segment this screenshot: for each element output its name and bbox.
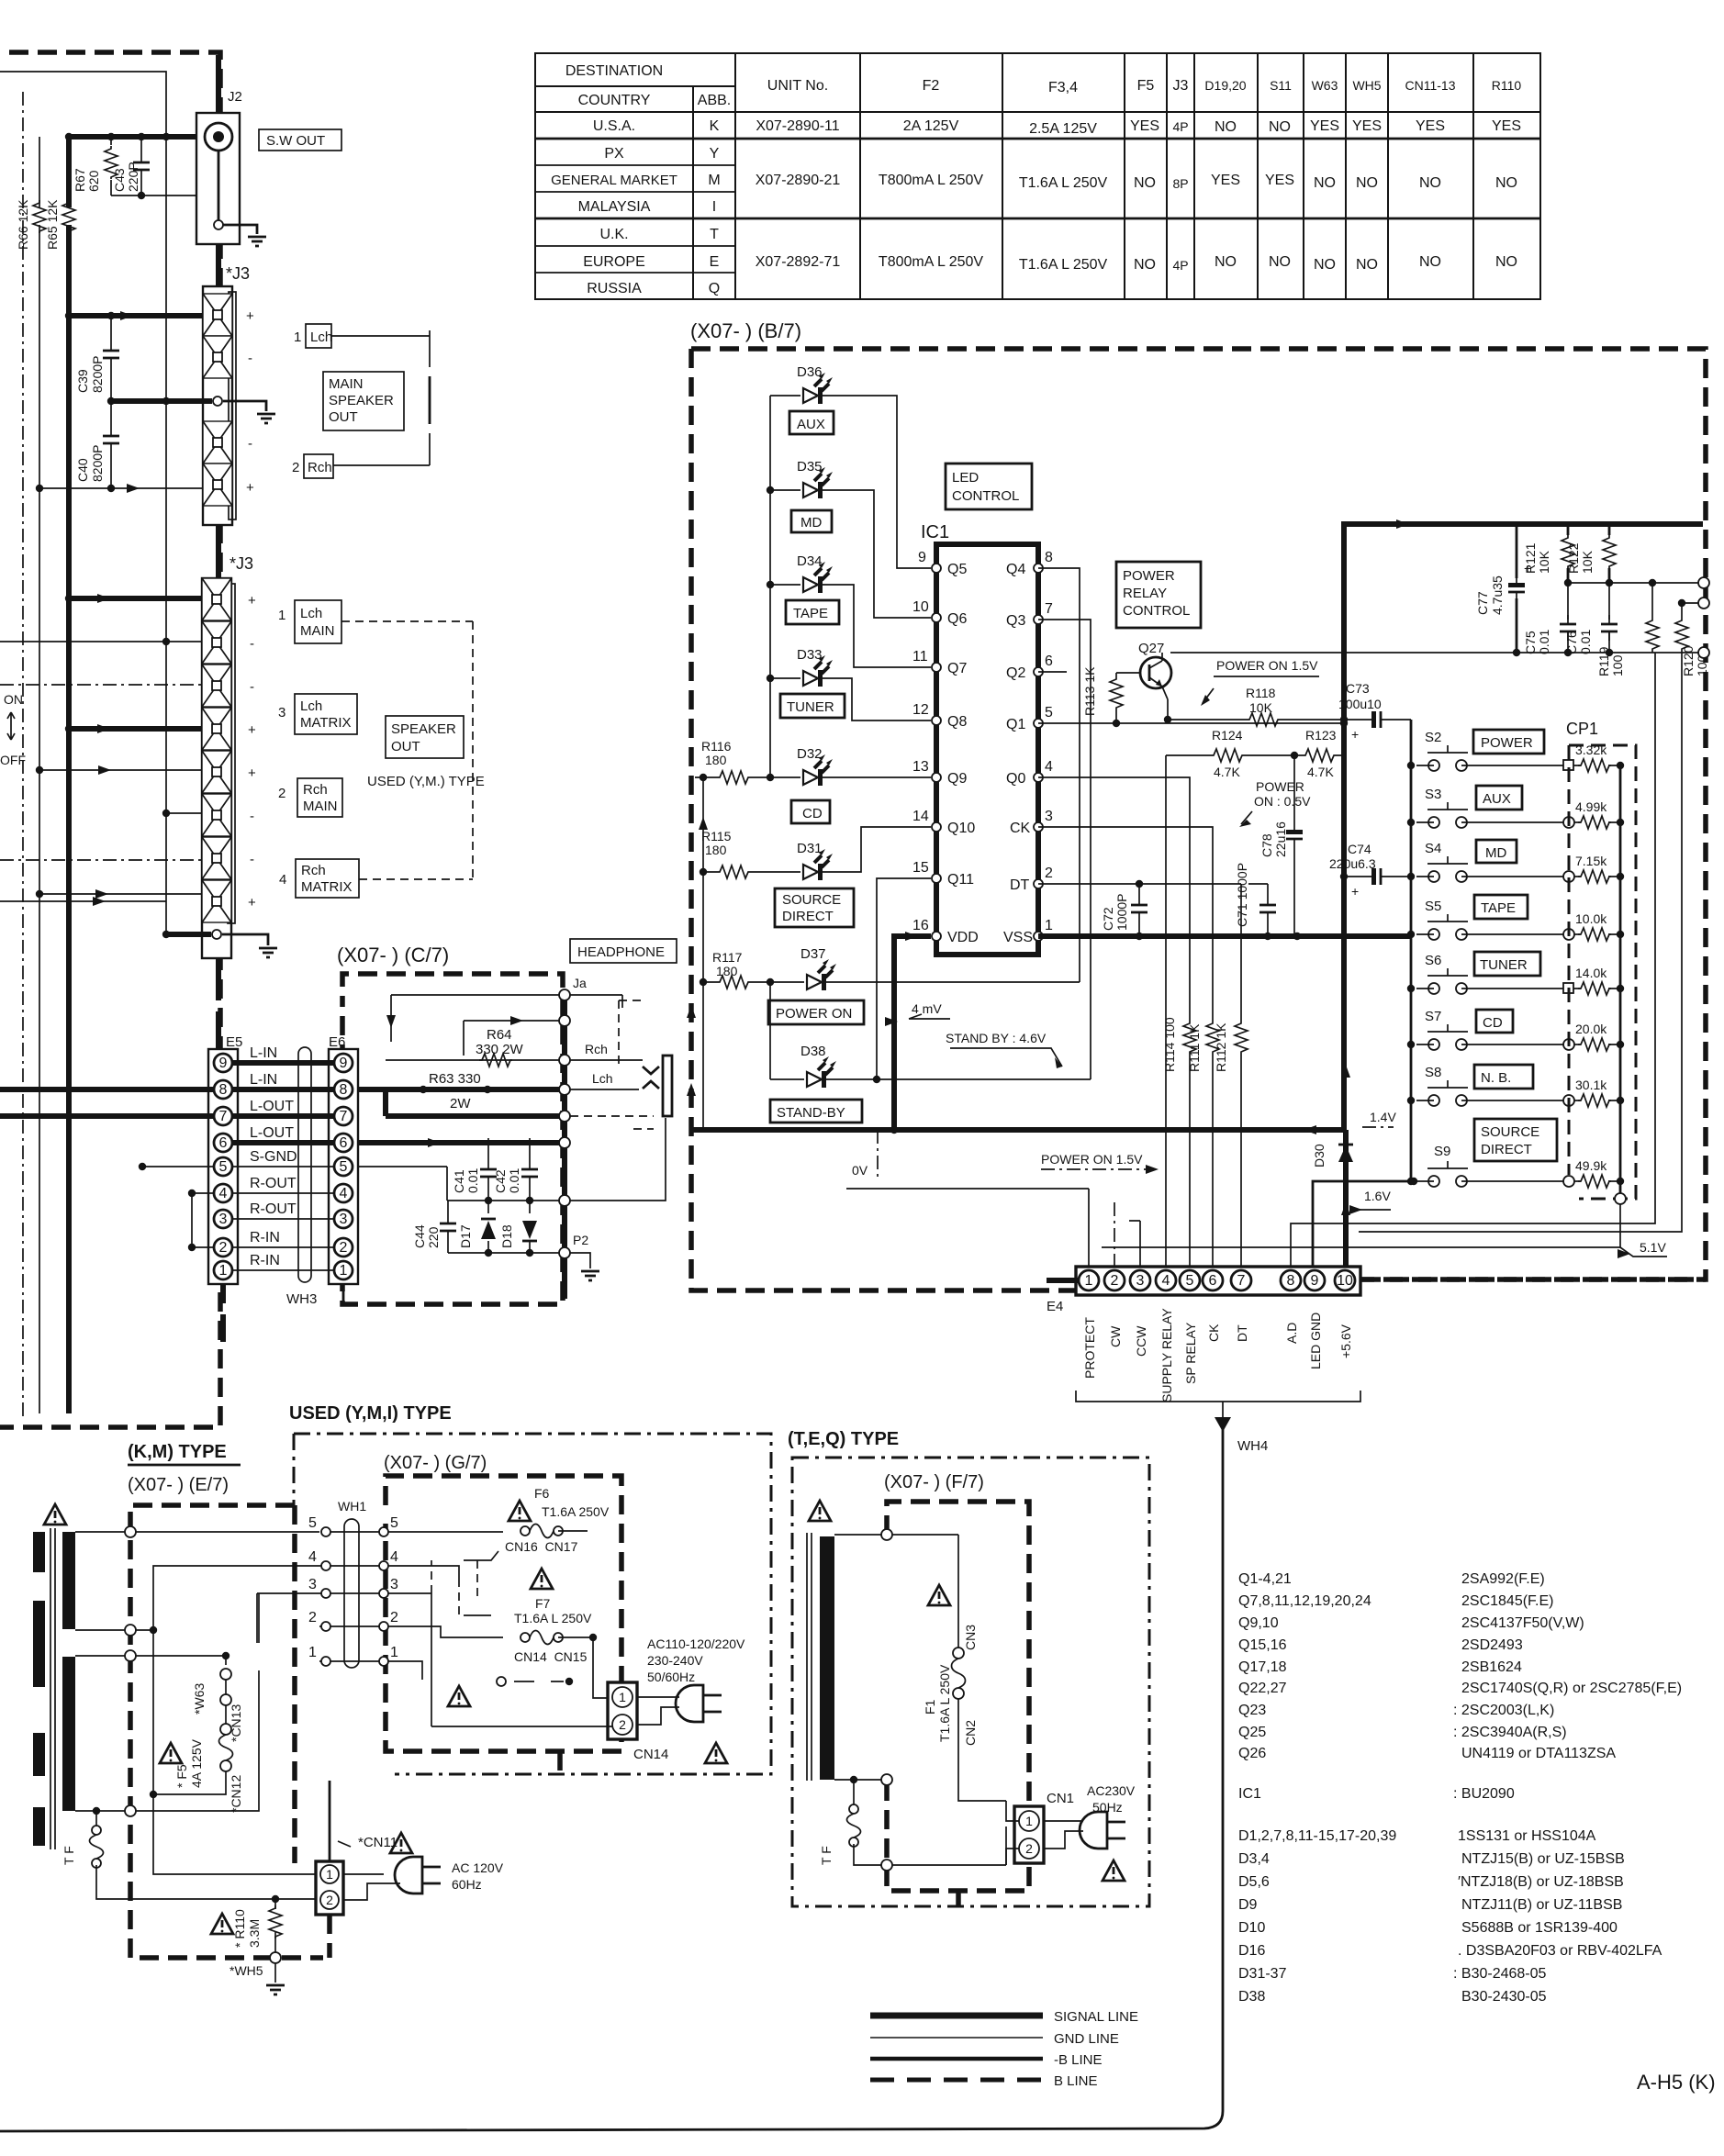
svg-text:Q1: Q1	[1006, 717, 1025, 732]
svg-text:F6: F6	[534, 1486, 550, 1501]
capacitor C77 4.7u35	[1516, 524, 1518, 653]
wire row S-GND from left	[142, 1166, 214, 1167]
svg-text:YES: YES	[1352, 118, 1382, 134]
wire joining R67/C43 bottoms	[111, 195, 218, 196]
svg-text:-: -	[250, 679, 254, 695]
wire CCW line to E4	[1129, 1221, 1140, 1267]
svg-text:WH4: WH4	[1237, 1438, 1268, 1454]
resistor R121 10K	[1567, 524, 1570, 583]
capacitor C72 1000P	[1138, 884, 1140, 936]
svg-text:MAIN: MAIN	[300, 623, 335, 639]
resistor R111 1K	[1183, 1021, 1196, 1054]
svg-text:ON : 0.5V: ON : 0.5V	[1254, 794, 1311, 809]
svg-text:C73: C73	[1346, 681, 1370, 696]
dash-dot outer box T,E,Q	[792, 1458, 1149, 1906]
svg-text:S7: S7	[1425, 1009, 1441, 1024]
svg-text:5.1V: 5.1V	[1640, 1240, 1666, 1255]
svg-text:X07-2892-71: X07-2892-71	[756, 254, 841, 270]
cable tie WH3	[298, 1047, 311, 1282]
svg-text:T1.6A L 250V: T1.6A L 250V	[1019, 175, 1108, 191]
svg-text:NO: NO	[1419, 254, 1441, 270]
svg-text:R122: R122	[1566, 542, 1581, 574]
svg-text:T1.6A L 250V: T1.6A L 250V	[514, 1611, 592, 1625]
wire pin5-1 links	[232, 1167, 334, 1270]
svg-text:C78: C78	[1259, 833, 1274, 857]
svg-text:2: 2	[1045, 866, 1053, 881]
capacitor C75 0.01	[1567, 583, 1569, 653]
wire J3 lower tail to E5	[216, 958, 221, 1054]
svg-text:NO: NO	[1215, 254, 1237, 270]
svg-text:2: 2	[219, 1240, 228, 1256]
svg-text:*WH5: *WH5	[229, 1963, 263, 1978]
wire secondary row 4	[75, 1629, 125, 1631]
svg-text:SPEAKER: SPEAKER	[329, 393, 394, 408]
wire CN14 pin2 return	[431, 1593, 612, 1726]
svg-text:C72: C72	[1101, 907, 1115, 931]
svg-text:49.9k: 49.9k	[1575, 1158, 1607, 1173]
wire D33 to Q8	[823, 678, 931, 721]
transformer T1 core lines	[50, 1528, 55, 1849]
svg-text:R123: R123	[1305, 728, 1337, 743]
svg-text:Lch: Lch	[592, 1071, 613, 1086]
svg-text:X07-2890-11: X07-2890-11	[756, 118, 839, 134]
switch common rail	[1410, 720, 1413, 1181]
svg-text:620: 620	[86, 170, 101, 192]
svg-text:C39: C39	[75, 369, 90, 393]
svg-text:C41: C41	[452, 1169, 466, 1193]
svg-text:CN3: CN3	[963, 1625, 978, 1650]
svg-text:4P: 4P	[1172, 258, 1188, 273]
svg-text:X07-2890-21: X07-2890-21	[756, 173, 841, 188]
svg-text:2SC4137F50(V,W): 2SC4137F50(V,W)	[1461, 1615, 1584, 1631]
svg-text:T800mA L 250V: T800mA L 250V	[879, 254, 983, 270]
label box HEADPHONE	[570, 939, 677, 963]
headphone jack symbol	[663, 1056, 672, 1116]
svg-text:WH3: WH3	[286, 1291, 317, 1307]
fuse F1 T1.6A L 250V	[957, 1535, 959, 1648]
wire E6 bottom tail	[342, 1284, 345, 1304]
label box TAPE	[786, 600, 839, 624]
wire thick vertical rail R65	[66, 137, 72, 1413]
wire row L-OUT thick from left	[0, 1113, 214, 1119]
svg-text:CN16 CN17: CN16 CN17	[505, 1539, 578, 1554]
svg-text:USED (Y,M.) TYPE: USED (Y,M.) TYPE	[367, 774, 485, 789]
svg-text:GND LINE: GND LINE	[1054, 2031, 1119, 2047]
E4 pin name labels	[1070, 1300, 1086, 1303]
svg-text:3: 3	[278, 705, 285, 721]
svg-text:NO: NO	[1419, 175, 1441, 191]
transformer T1 primary bar	[33, 1532, 45, 1572]
svg-text:R63 330: R63 330	[429, 1071, 481, 1087]
wire gnd row J3 lower	[166, 932, 211, 937]
svg-text:S8: S8	[1425, 1065, 1441, 1080]
svg-text:: B30-2468-05: : B30-2468-05	[1453, 1966, 1547, 1982]
svg-text:DT: DT	[1010, 877, 1030, 893]
svg-text:Ja: Ja	[573, 976, 587, 990]
svg-text:1: 1	[219, 1263, 228, 1279]
svg-text:SOURCE: SOURCE	[1481, 1124, 1539, 1140]
dashed box G/7	[386, 1476, 621, 1751]
svg-text:Rch: Rch	[303, 782, 328, 798]
svg-text:2SB1624: 2SB1624	[1461, 1659, 1522, 1675]
svg-text:6: 6	[1209, 1273, 1217, 1289]
svg-text:NO: NO	[1134, 257, 1156, 273]
wire arrows on B/7 left edge	[687, 1005, 696, 1018]
svg-text:+: +	[248, 593, 256, 609]
wire D36 to Q5	[823, 396, 931, 568]
G/7 stub to bottom	[557, 1751, 563, 1774]
svg-text:50Hz: 50Hz	[1092, 1800, 1123, 1815]
svg-text:Q0: Q0	[1006, 771, 1025, 787]
svg-text:OUT: OUT	[329, 409, 358, 425]
svg-text:D35: D35	[797, 459, 823, 475]
svg-text:2.5A 125V: 2.5A 125V	[1029, 121, 1097, 137]
wire IC bottom stub	[691, 1127, 1344, 1133]
svg-text:3: 3	[1136, 1273, 1145, 1289]
diode D17	[487, 1201, 489, 1253]
svg-text:8: 8	[1287, 1273, 1295, 1289]
ground at J2	[248, 237, 266, 246]
svg-text:CN14: CN14	[633, 1747, 668, 1762]
wire dash-dot row ON/OFF	[0, 684, 202, 686]
svg-text:-: -	[250, 636, 254, 652]
wire to node2	[464, 1021, 559, 1056]
svg-text:L-IN: L-IN	[250, 1045, 277, 1061]
svg-text:-: -	[248, 351, 252, 366]
connector pins column right	[379, 1527, 388, 1666]
svg-text:1: 1	[326, 1867, 333, 1882]
svg-text:AC 120V: AC 120V	[452, 1860, 504, 1875]
wire F7 down to CN14	[593, 1637, 608, 1698]
svg-text:YES: YES	[1211, 173, 1240, 188]
svg-text:LED: LED	[952, 470, 979, 486]
wire pin8 row to jack	[559, 1084, 570, 1095]
svg-text:CD: CD	[802, 806, 823, 821]
svg-text:D31: D31	[797, 841, 823, 856]
svg-text:-B LINE: -B LINE	[1054, 2052, 1103, 2068]
wire CK down to E4	[1038, 827, 1213, 1021]
svg-text:(T,E,Q) TYPE: (T,E,Q) TYPE	[788, 1429, 899, 1449]
ground at WH5	[266, 1985, 285, 1994]
svg-text:* F5: * F5	[174, 1764, 189, 1788]
bracket wires to MAIN SPEAKER OUT	[331, 330, 430, 367]
svg-text:CN14 CN15: CN14 CN15	[514, 1649, 588, 1664]
svg-text:R117: R117	[712, 950, 743, 965]
svg-text:12: 12	[912, 702, 929, 718]
svg-text:180: 180	[716, 964, 738, 978]
svg-text:8P: 8P	[1172, 176, 1188, 191]
svg-text:*CN12: *CN12	[229, 1775, 243, 1813]
svg-text:D32: D32	[797, 746, 823, 762]
wire row to jack mid	[559, 1111, 570, 1122]
svg-text:CONTROL: CONTROL	[952, 488, 1019, 504]
svg-text:SUPPLY RELAY: SUPPLY RELAY	[1159, 1308, 1174, 1402]
svg-text:10: 10	[912, 599, 929, 615]
dashed box B/7	[691, 349, 1706, 1290]
svg-text:R-IN: R-IN	[250, 1253, 280, 1268]
svg-text:POWER ON 1.5V: POWER ON 1.5V	[1216, 658, 1318, 673]
ground at J3 upper	[257, 414, 275, 423]
svg-text:R66 12K: R66 12K	[16, 199, 30, 250]
capacitor C42 0.01	[529, 1138, 531, 1201]
wire thin vertical rail R66	[39, 137, 40, 1413]
transformer T2 bar	[820, 1536, 834, 1780]
svg-text:C43: C43	[112, 168, 127, 192]
wire T2 top row	[834, 1534, 881, 1536]
fuse F5 4A 125V	[219, 1735, 233, 1760]
svg-text:CW: CW	[1108, 1325, 1123, 1347]
svg-text:20.0k: 20.0k	[1575, 1022, 1607, 1036]
svg-text:F3,4: F3,4	[1048, 80, 1078, 95]
svg-text:C42: C42	[493, 1169, 508, 1193]
svg-text:GENERAL MARKET: GENERAL MARKET	[551, 173, 677, 188]
svg-text:13: 13	[912, 759, 929, 775]
svg-text:IC1: IC1	[1238, 1786, 1261, 1802]
svg-text:DIRECT: DIRECT	[1481, 1142, 1532, 1157]
svg-text:Q7,8,11,12,19,20,24: Q7,8,11,12,19,20,24	[1238, 1593, 1371, 1609]
wire thick speaker feed row1	[69, 313, 203, 318]
wire second row to edge	[1682, 602, 1698, 604]
svg-text:POWER ON: POWER ON	[776, 1006, 852, 1022]
svg-text:R113 1K: R113 1K	[1082, 666, 1097, 716]
svg-text:0V: 0V	[852, 1163, 868, 1178]
svg-text:Q: Q	[709, 281, 720, 296]
svg-text:NTZJ11(B) or UZ-11BSB: NTZJ11(B) or UZ-11BSB	[1461, 1897, 1622, 1913]
svg-text:*J3: *J3	[226, 264, 250, 283]
svg-text:3: 3	[340, 1212, 348, 1227]
svg-text:D5,6: D5,6	[1238, 1874, 1270, 1890]
svg-text:D10: D10	[1238, 1920, 1265, 1936]
svg-text:D3,4: D3,4	[1238, 1851, 1270, 1867]
svg-text:1.4V: 1.4V	[1370, 1110, 1396, 1124]
svg-text:PROTECT: PROTECT	[1082, 1317, 1097, 1379]
pin name labels between E5/E6	[250, 1045, 297, 1268]
wire row6 stub	[166, 812, 202, 814]
connector CN13	[220, 1724, 231, 1735]
svg-text:100: 100	[1610, 654, 1625, 676]
svg-text:AUX: AUX	[1483, 791, 1511, 807]
svg-text:9: 9	[340, 1056, 348, 1071]
svg-text:OUT: OUT	[391, 739, 420, 754]
WH4 harness bracket	[1076, 1391, 1360, 1418]
AC plug at CN14	[637, 1697, 679, 1725]
svg-text:F1: F1	[923, 1699, 937, 1715]
wire secondary row 3	[75, 1655, 125, 1657]
wire row5 to fuse F6	[388, 1531, 503, 1533]
capacitor C41 0.01	[487, 1138, 489, 1201]
svg-text:LED GND: LED GND	[1308, 1313, 1323, 1369]
wire D37 to Q4 line	[826, 981, 1080, 983]
wire secondary row 5	[75, 1531, 319, 1533]
svg-text:*CN13: *CN13	[229, 1704, 243, 1742]
wire rows 4,3,1 into G/7	[388, 1566, 459, 1680]
svg-text:Q27: Q27	[1138, 641, 1164, 656]
svg-text:DESTINATION: DESTINATION	[565, 63, 663, 79]
svg-text:1: 1	[390, 1645, 398, 1660]
svg-text:COUNTRY: COUNTRY	[578, 93, 651, 108]
wire Q3 to D38	[1038, 620, 1091, 1079]
dashed box F/7	[887, 1502, 1029, 1891]
warning triangle	[44, 1504, 66, 1525]
dashed stub CN11 to box	[327, 1915, 332, 1958]
svg-text:D38: D38	[800, 1044, 826, 1059]
svg-text:(X07- ) (B/7): (X07- ) (B/7)	[690, 319, 801, 342]
svg-text:7: 7	[340, 1109, 348, 1124]
svg-text:U.K.: U.K.	[599, 227, 628, 242]
wire VDD feed	[894, 936, 931, 1130]
svg-text:-: -	[250, 809, 254, 824]
svg-text:4: 4	[1045, 759, 1053, 775]
svg-text:MALAYSIA: MALAYSIA	[578, 199, 651, 215]
svg-text:4: 4	[390, 1549, 398, 1565]
svg-text:Q17,18: Q17,18	[1238, 1659, 1287, 1675]
wire Q27 collector row	[1170, 652, 1700, 654]
svg-text:EUROPE: EUROPE	[583, 254, 645, 270]
svg-text:R120: R120	[1681, 645, 1696, 676]
wires across WH1	[330, 1532, 379, 1661]
wire thick rail down	[1341, 720, 1347, 1130]
resistor R66 12K	[33, 200, 46, 233]
svg-text:10K: 10K	[1580, 550, 1595, 574]
svg-text:4: 4	[1162, 1273, 1170, 1289]
svg-text:L-OUT: L-OUT	[250, 1099, 294, 1114]
wire Q1 row	[1038, 722, 1344, 724]
svg-text:30.1k: 30.1k	[1575, 1078, 1607, 1092]
svg-text:2: 2	[308, 1610, 317, 1625]
wire R124/R123 row	[1166, 720, 1344, 755]
wire J2 to J3 stem	[216, 244, 221, 286]
svg-text:POWER: POWER	[1481, 735, 1533, 751]
svg-text:B30-2430-05: B30-2430-05	[1461, 1989, 1547, 2005]
svg-text:VSS: VSS	[1003, 930, 1033, 945]
svg-text:T1.6A L 250V: T1.6A L 250V	[1019, 257, 1108, 273]
svg-text:Q7: Q7	[947, 661, 967, 676]
svg-text:CCW: CCW	[1134, 1325, 1148, 1357]
label PROTECT line	[846, 1189, 1089, 1267]
svg-text:F5: F5	[1137, 78, 1155, 94]
svg-text:D9: D9	[1238, 1897, 1258, 1913]
label box LED CONTROL	[946, 464, 1032, 509]
wire D38 to Q3 line	[826, 1078, 1091, 1080]
svg-text:Rch: Rch	[308, 460, 332, 475]
svg-text:Q5: Q5	[947, 562, 967, 577]
svg-text:S11: S11	[1270, 78, 1292, 93]
svg-text:1: 1	[1045, 918, 1053, 933]
svg-text:8: 8	[340, 1082, 348, 1098]
svg-text:YES: YES	[1310, 118, 1339, 134]
svg-text:MATRIX: MATRIX	[301, 879, 353, 895]
wire row5	[39, 769, 202, 771]
svg-text:10: 10	[1337, 1273, 1353, 1289]
resistor R119 100	[1651, 583, 1653, 653]
svg-text:MATRIX: MATRIX	[300, 715, 352, 731]
svg-text:SP RELAY: SP RELAY	[1183, 1322, 1198, 1384]
svg-text:Q2: Q2	[1006, 665, 1025, 681]
svg-text:F7: F7	[535, 1596, 551, 1611]
wire J3 upper to J3 lower stem	[216, 525, 221, 578]
svg-text:-: -	[248, 436, 252, 452]
svg-text:2: 2	[292, 460, 299, 475]
svg-text:R110: R110	[1492, 78, 1522, 93]
svg-text:4.99k: 4.99k	[1575, 799, 1607, 814]
node jack 2	[559, 1015, 570, 1026]
thick +5.6V rail with diode D30	[1343, 1130, 1349, 1267]
label box SPEAKER OUT	[386, 716, 464, 758]
svg-text:2SA992(F.E): 2SA992(F.E)	[1461, 1571, 1545, 1587]
svg-text:5: 5	[1045, 705, 1053, 721]
svg-text:7.15k: 7.15k	[1575, 854, 1607, 868]
svg-text:S-GND: S-GND	[250, 1149, 297, 1165]
svg-text:POWER: POWER	[1256, 779, 1304, 794]
svg-text:MAIN: MAIN	[329, 376, 364, 392]
connector pins column left	[321, 1527, 330, 1666]
svg-text:: 2SC3940A(R,S): : 2SC3940A(R,S)	[1453, 1725, 1567, 1740]
dashed enclosure box top-left	[0, 52, 220, 1427]
svg-text:1: 1	[340, 1263, 348, 1279]
svg-text:OFF: OFF	[0, 753, 26, 767]
wire S-GND row	[559, 1195, 570, 1206]
svg-text:3.3M: 3.3M	[247, 1919, 262, 1948]
svg-text:M: M	[708, 173, 720, 188]
label box STAND-BY	[770, 1100, 862, 1123]
wire row4 thick	[69, 726, 202, 732]
svg-text:Q26: Q26	[1238, 1746, 1266, 1761]
svg-text:R-OUT: R-OUT	[250, 1176, 297, 1191]
svg-text:11: 11	[912, 649, 928, 665]
svg-text:+: +	[248, 765, 256, 781]
svg-text:Q10: Q10	[947, 821, 975, 836]
svg-text:0.01: 0.01	[507, 1168, 521, 1193]
svg-text:2: 2	[390, 1610, 398, 1625]
svg-text:: BU2090: : BU2090	[1453, 1786, 1515, 1802]
svg-text:NTZJ15(B) or UZ-15BSB: NTZJ15(B) or UZ-15BSB	[1461, 1851, 1625, 1867]
svg-text:14.0k: 14.0k	[1575, 966, 1607, 980]
svg-text:E4: E4	[1047, 1299, 1063, 1314]
svg-text:230-240V: 230-240V	[647, 1653, 703, 1668]
label box S.W OUT	[259, 129, 341, 151]
svg-text:E: E	[710, 254, 720, 270]
wire thick bus to J2	[69, 134, 206, 140]
svg-text:UNIT No.: UNIT No.	[767, 78, 828, 94]
svg-text:YES: YES	[1416, 118, 1445, 134]
wire DT row	[1038, 884, 1241, 1267]
svg-text:ON: ON	[4, 692, 23, 707]
svg-text:Q3: Q3	[1006, 613, 1025, 629]
svg-text:NO: NO	[1495, 175, 1517, 191]
resistor R122 10K	[1608, 524, 1611, 583]
svg-text:TUNER: TUNER	[1480, 957, 1528, 973]
svg-text:S5: S5	[1425, 899, 1441, 914]
svg-text:SPEAKER: SPEAKER	[391, 721, 456, 737]
svg-text:S2: S2	[1425, 730, 1441, 745]
svg-text:R115: R115	[701, 829, 732, 843]
svg-text:YES: YES	[1130, 118, 1159, 134]
svg-text:W63: W63	[1312, 78, 1338, 93]
svg-text:C40: C40	[75, 458, 90, 482]
svg-text:+: +	[248, 895, 256, 910]
resistor R120 100	[1681, 603, 1683, 653]
table grid	[535, 53, 1540, 299]
svg-text:SIGNAL LINE: SIGNAL LINE	[1054, 2009, 1138, 2025]
svg-text:L-OUT: L-OUT	[250, 1125, 294, 1141]
capacitor C40 8200P	[110, 401, 112, 488]
svg-text:Q1-4,21: Q1-4,21	[1238, 1571, 1292, 1587]
svg-text:0.01: 0.01	[465, 1168, 480, 1193]
svg-text:NO: NO	[1134, 175, 1156, 191]
svg-text:N. B.: N. B.	[1481, 1070, 1511, 1086]
svg-text:T800mA L 250V: T800mA L 250V	[879, 173, 983, 188]
svg-text:1.6V: 1.6V	[1364, 1189, 1391, 1203]
